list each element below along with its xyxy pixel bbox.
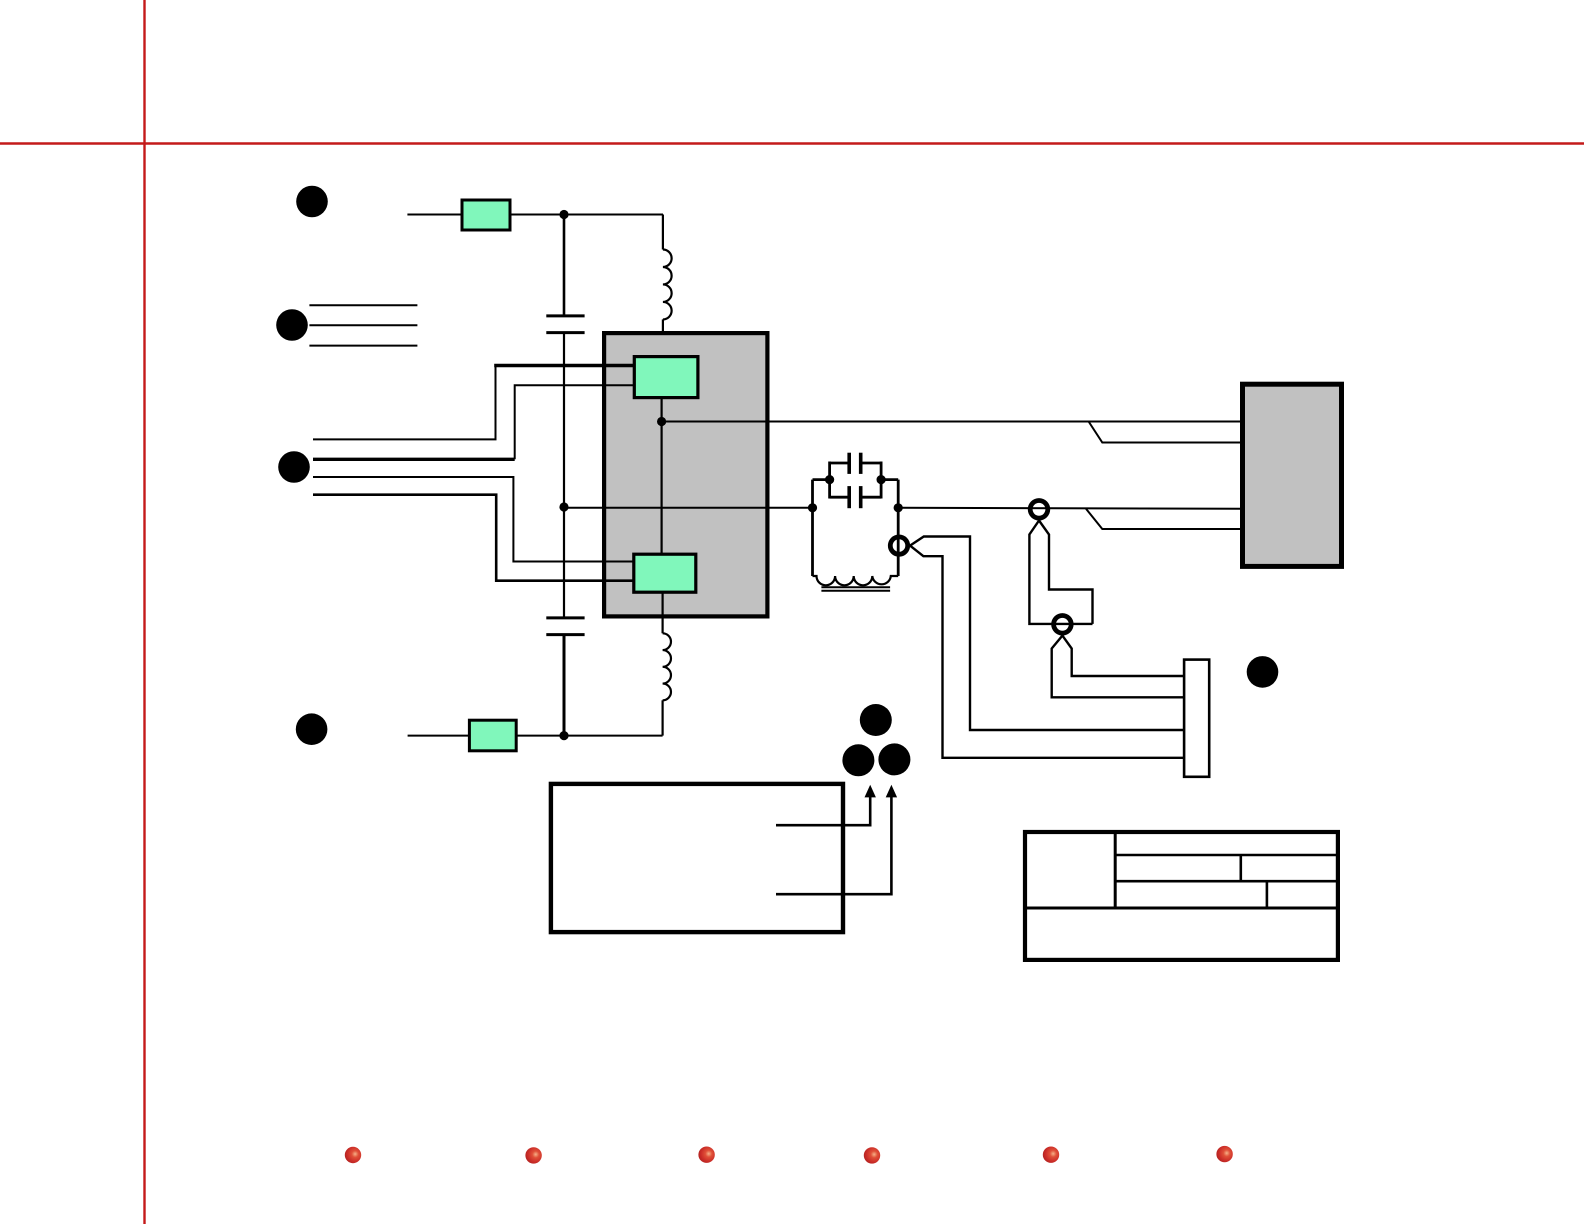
resistor R1 [462,200,510,230]
capacitor C1 [546,316,584,333]
wire P3 fork right [1062,636,1184,676]
locator ball 3 [698,1147,714,1163]
wire W1 [313,366,496,440]
junction dot mid [559,502,568,511]
wire bottom input [408,735,470,737]
wire W2 [515,385,635,459]
terminal ring P3 [1054,616,1072,634]
junction dot U1 [657,417,666,426]
wire P2 fork left [1029,521,1092,624]
inductor L2 [663,633,671,700]
node B line 3 [309,345,417,347]
capacitor C3 [830,453,882,474]
inductor L1 [663,250,672,320]
wire net2 to P2 [898,507,1240,510]
junction dot bottom [559,731,568,740]
transformer T1 right rail [897,480,900,576]
locator ball 5 [1043,1147,1059,1163]
wire W3 [313,477,634,562]
wire T1 top link left [813,478,830,481]
wire R1 to node [510,214,663,216]
component K1 green box [634,357,698,398]
node B line 1 [309,304,417,306]
transformer T1 winding [813,576,899,585]
wire W2 thick segment [313,458,515,461]
wire K1 to junction [660,398,662,555]
junction dot C3 right [877,475,886,484]
node B line 2 [309,324,417,326]
junction dot T1 right [894,503,903,512]
wire junction to C1 [563,215,566,316]
terminal ring P2 [1030,501,1048,519]
wire K2 to L2 [661,592,663,633]
wire L1 to U1 [662,319,664,357]
wire P1 fork lower [910,546,1184,758]
node B callout dot [276,309,308,341]
wire P3 fork left [1052,636,1184,698]
module U2 box [1243,384,1342,566]
wire R2 to junction [516,735,662,737]
locator ball 4 [864,1147,880,1163]
capacitor C4 [830,486,882,508]
junction dot C3 left [825,475,834,484]
wire P1 fork upper [910,537,1184,731]
locator ball 2 [525,1147,541,1163]
wire P2 fork right [1039,521,1093,624]
title block [1023,830,1338,960]
control box [551,784,843,932]
wire net1 from U1 [662,421,1240,423]
resistor R2 [469,720,516,751]
node E callout dot [1247,656,1279,688]
node C callout dot [278,451,310,483]
wire W1 thick segment [494,364,635,367]
wire net1 branch [1089,422,1240,443]
capacitor C3 rail left [828,462,831,499]
arrowhead 2 [886,785,897,798]
wire net2 from mid junction [564,507,813,509]
capacitor C3 rail right [880,462,883,499]
module U1 box [604,333,767,616]
wire top input [407,214,462,216]
component K2 green box [634,554,696,592]
red border line vertical [143,0,145,1224]
wire arrow1 [776,797,870,825]
capacitor C2 [546,618,584,635]
wire arrow2 [776,797,891,894]
wire T1 top link right [881,478,898,481]
connector J1 bar [1184,660,1209,777]
transformer T1 left rail [811,480,814,576]
wire net2 branch [1086,509,1240,529]
red border line horizontal [0,142,1584,144]
transformer T1 core [821,587,890,591]
wire top node corner [662,215,664,250]
indicator dot left [842,744,874,776]
wire C1 to C2 [563,333,565,618]
arrowhead 1 [865,785,876,798]
wire W4 [313,495,634,581]
indicator dot top [860,704,892,736]
node A callout dot [296,186,328,218]
junction dot top [559,210,568,219]
indicator dot right [878,743,910,775]
locator ball 1 [345,1147,361,1163]
node D callout dot [296,713,328,745]
wire L2 down [661,700,663,735]
wire C2 to bottom junction [563,635,566,736]
terminal ring P1 [890,537,907,554]
junction dot T1 left [808,503,817,512]
locator ball 6 [1216,1146,1232,1162]
